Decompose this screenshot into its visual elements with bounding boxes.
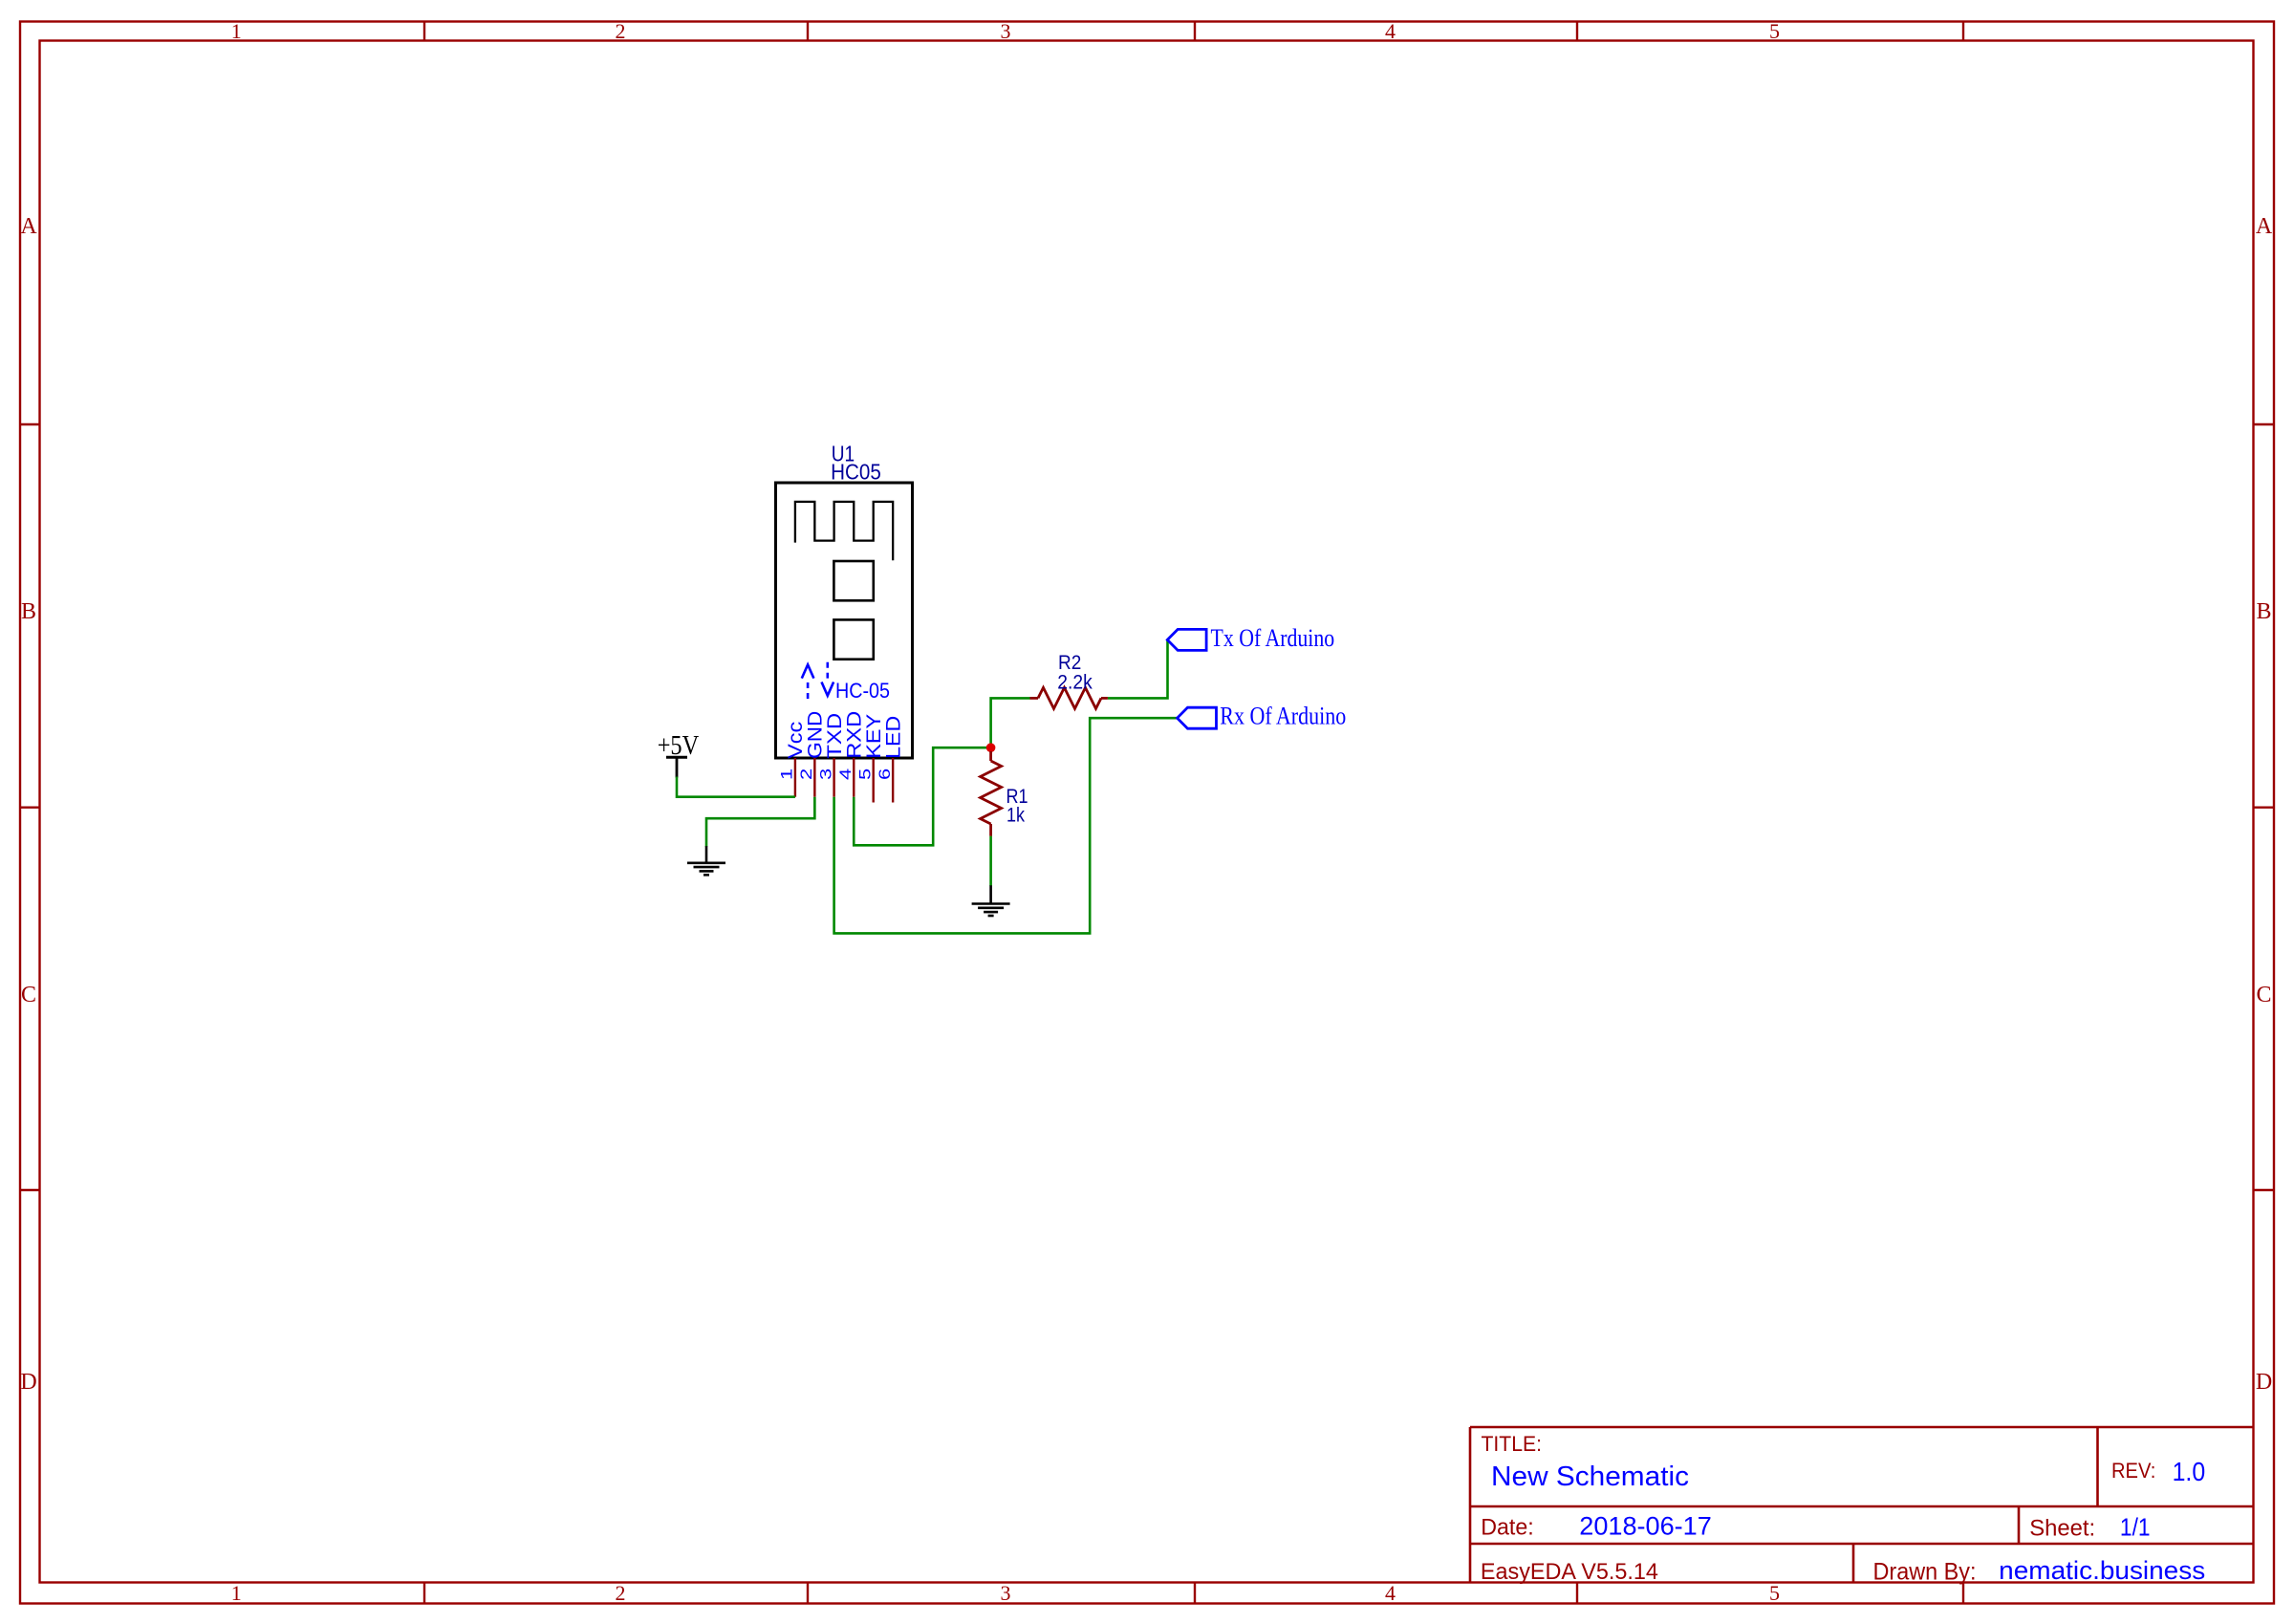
svg-text:C: C: [21, 983, 36, 1007]
ground symbol GND1 (left): [687, 846, 725, 875]
svg-text:HC05: HC05: [831, 460, 881, 485]
svg-text:2.2k: 2.2k: [1057, 672, 1093, 694]
svg-text:nematic.business: nematic.business: [1999, 1556, 2205, 1585]
wire R1 bottom lead to ground: [989, 836, 992, 886]
U1 pin 6 stub: [892, 758, 894, 803]
svg-text:B: B: [2256, 599, 2271, 624]
ground symbol GND2 (below R1): [972, 885, 1010, 916]
resistor R2 2.2k (horizontal): [1030, 687, 1108, 708]
wire node A to R2 left lead: [991, 698, 1030, 747]
net flag pentagon Rx: [1178, 707, 1217, 728]
svg-text:6: 6: [876, 769, 894, 780]
junction node A: [986, 743, 996, 752]
svg-text:1: 1: [778, 769, 796, 780]
svg-text:A: A: [2256, 214, 2273, 239]
wire +5V to U1 pin1 Vcc: [677, 777, 795, 797]
svg-text:TITLE:: TITLE:: [1482, 1432, 1543, 1456]
U1 pin 3 stub: [833, 758, 834, 797]
svg-text:A: A: [20, 214, 37, 239]
U1 pin 4 stub: [853, 758, 855, 797]
svg-text:2018-06-17: 2018-06-17: [1579, 1512, 1712, 1541]
wire R2 right lead to Tx flag: [1108, 639, 1168, 698]
svg-text:5: 5: [856, 769, 875, 780]
svg-text:3: 3: [1001, 1581, 1011, 1605]
svg-text:4: 4: [836, 769, 855, 780]
U1 pin 2 stub: [813, 758, 815, 797]
svg-text:3: 3: [1001, 19, 1011, 43]
svg-text:3: 3: [816, 769, 834, 780]
svg-text:5: 5: [1769, 19, 1780, 43]
svg-text:Date:: Date:: [1481, 1515, 1534, 1541]
svg-text:1.0: 1.0: [2173, 1457, 2206, 1486]
svg-text:Rx Of Arduino: Rx Of Arduino: [1220, 703, 1346, 730]
svg-text:C: C: [2256, 983, 2271, 1007]
svg-text:4: 4: [1385, 1581, 1396, 1605]
wire U1 pin4 RXD to node A: [854, 747, 990, 845]
svg-text:B: B: [21, 599, 36, 624]
svg-text:D: D: [2256, 1370, 2272, 1395]
U1 pin 5 stub: [873, 758, 875, 803]
svg-text:2: 2: [616, 19, 626, 43]
U1 pin 1 stub: [794, 758, 796, 797]
svg-text:Drawn By:: Drawn By:: [1873, 1558, 1977, 1585]
svg-text:5: 5: [1769, 1581, 1780, 1605]
svg-text:4: 4: [1385, 19, 1396, 43]
svg-text:D: D: [20, 1370, 36, 1395]
svg-text:1: 1: [231, 19, 242, 43]
svg-text:2: 2: [616, 1581, 626, 1605]
IC U1 HC05 module symbol body: [776, 483, 913, 758]
svg-text:EasyEDA V5.5.14: EasyEDA V5.5.14: [1481, 1559, 1658, 1585]
svg-text:1k: 1k: [1006, 805, 1025, 827]
wire U1 pin2 GND to ground: [706, 797, 814, 847]
net flag pentagon Tx: [1167, 629, 1206, 650]
resistor R1 1k (vertical): [981, 751, 1002, 836]
wire U1 pin3 TXD to Rx flag: [834, 718, 1178, 933]
svg-text:REV:: REV:: [2111, 1459, 2155, 1483]
svg-text:LED: LED: [881, 716, 904, 759]
svg-text:New Schematic: New Schematic: [1491, 1462, 1689, 1492]
svg-text:1: 1: [231, 1581, 242, 1605]
svg-text:Tx Of Arduino: Tx Of Arduino: [1211, 624, 1335, 652]
svg-text:2: 2: [797, 769, 815, 780]
svg-text:Sheet:: Sheet:: [2029, 1515, 2095, 1541]
svg-text:HC-05: HC-05: [835, 679, 890, 703]
svg-text:R2: R2: [1058, 652, 1081, 674]
power +5V symbol bar and stub: [666, 757, 687, 777]
svg-text:1/1: 1/1: [2120, 1512, 2151, 1541]
